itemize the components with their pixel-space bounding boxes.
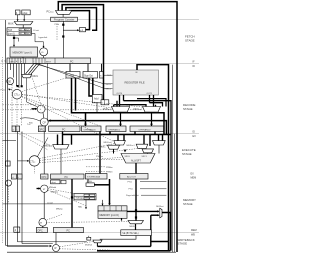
svg-text:Tsrc: Tsrc (27, 123, 31, 126)
svg-text:uhat: uhat (51, 181, 56, 184)
svg-text:MRphys: MRphys (56, 209, 63, 211)
svg-text:OUT0: OUT0 (117, 93, 123, 95)
svg-text:PSWwr: PSWwr (106, 166, 113, 169)
svg-text:MUXsrc1: MUXsrc1 (127, 144, 135, 147)
svg-text:s: s (21, 61, 22, 63)
svg-text:REGISTER FILE: REGISTER FILE (125, 81, 145, 85)
svg-text:STOREDATA: STOREDATA (87, 176, 101, 179)
svg-text:PSWen: PSWen (96, 156, 103, 158)
svg-text:MUXout: MUXout (156, 205, 164, 208)
svg-text:Add: Add (94, 98, 99, 101)
svg-text:CTLx: CTLx (30, 160, 36, 163)
svg-text:PSWrm: PSWrm (106, 171, 113, 174)
svg-text:MUXi: MUXi (33, 76, 39, 78)
svg-text:MUXsrc0: MUXsrc0 (104, 141, 112, 144)
svg-text:ALUOUT: ALUOUT (127, 176, 137, 179)
svg-text:d: d (13, 129, 14, 131)
svg-text:hyperlink: hyperlink (39, 36, 49, 39)
svg-text:MWaddr: MWaddr (49, 186, 57, 189)
svg-text:(port I): (port I) (8, 33, 15, 36)
svg-text:MUXsrc0: MUXsrc0 (103, 109, 112, 111)
svg-text:phys: phys (25, 29, 29, 31)
svg-text:ID: ID (193, 65, 196, 68)
svg-text:PC: PC (62, 128, 66, 131)
svg-text:PCmux: PCmux (47, 11, 54, 14)
svg-text:I.0 virt: I.0 virt (33, 29, 39, 32)
svg-text:STAGE: STAGE (183, 107, 193, 111)
svg-text:PTwr: PTwr (129, 187, 134, 190)
svg-text:EX: EX (193, 135, 197, 138)
svg-text:SE: SE (8, 81, 12, 83)
svg-text:CTLd: CTLd (14, 93, 20, 96)
svg-text:MUX: MUX (8, 22, 14, 25)
svg-text:TLB (port D): TLB (port D) (76, 197, 88, 200)
svg-text:OPERAND2: OPERAND2 (139, 128, 152, 131)
svg-text:PTen: PTen (128, 181, 133, 183)
svg-text:MWd: MWd (87, 181, 92, 183)
svg-text:SRC0: SRC0 (106, 84, 112, 86)
svg-text:EX: EX (191, 173, 195, 176)
svg-text:SRC1: SRC1 (142, 156, 148, 158)
svg-text:OUT1: OUT1 (147, 93, 153, 95)
svg-text:MUXpc: MUXpc (45, 145, 52, 147)
svg-text:Page table hit: Page table hit (126, 194, 139, 197)
svg-text:PCib: PCib (55, 24, 59, 26)
svg-text:OPC: OPC (39, 128, 44, 131)
svg-text:INST: INST (46, 61, 52, 63)
svg-text:MUXa: MUXa (100, 147, 106, 149)
svg-text:ID: ID (193, 131, 196, 134)
svg-text:OPERAND1: OPERAND1 (108, 128, 121, 131)
svg-text:OPC: OPC (38, 229, 43, 232)
svg-text:MEM: MEM (191, 229, 197, 232)
svg-text:TLB: TLB (8, 30, 13, 32)
svg-text:SRC0: SRC0 (125, 156, 131, 158)
svg-text:MEMORY (port D): MEMORY (port D) (100, 214, 120, 217)
svg-text:L Shift: L Shift (68, 74, 75, 77)
svg-text:MEM: MEM (191, 177, 197, 180)
svg-text:Program Counter: Program Counter (54, 18, 75, 22)
svg-text:MA: MA (78, 205, 82, 208)
svg-text:PCsrc: PCsrc (1, 89, 6, 92)
svg-text:MUXwb: MUXwb (85, 245, 92, 247)
svg-text:Sign Ext: Sign Ext (84, 74, 93, 77)
svg-text:d: d (16, 61, 17, 63)
svg-text:OPERAND0: OPERAND0 (84, 128, 97, 131)
svg-text:SE (BYTE SEL): SE (BYTE SEL) (122, 233, 138, 235)
svg-text:PC: PC (70, 60, 74, 63)
svg-text:phys: phys (25, 33, 29, 35)
svg-text:STAGE: STAGE (183, 202, 193, 206)
svg-text:I.0 virt: I.0 virt (47, 201, 53, 204)
svg-text:STAGE: STAGE (178, 242, 188, 246)
svg-text:STAGE: STAGE (185, 38, 195, 42)
svg-text:uhat: uhat (22, 11, 27, 15)
svg-text:MUXm: MUXm (130, 226, 137, 228)
svg-text:MWdata: MWdata (51, 191, 58, 194)
svg-text:MEMORY (port I): MEMORY (port I) (13, 51, 32, 54)
svg-text:OPC: OPC (10, 61, 15, 63)
svg-text:MUXsrc1: MUXsrc1 (134, 109, 143, 111)
svg-text:PC: PC (67, 229, 71, 232)
svg-text:PC: PC (65, 176, 69, 179)
svg-text:CP: CP (43, 121, 47, 124)
svg-text:STAGE: STAGE (182, 152, 192, 156)
svg-text:d: d (12, 177, 13, 179)
svg-text:SRC1: SRC1 (106, 88, 112, 90)
svg-text:WB: WB (191, 234, 195, 237)
svg-text:ALU/SFT: ALU/SFT (131, 160, 141, 163)
svg-text:OPC: OPC (41, 176, 46, 179)
